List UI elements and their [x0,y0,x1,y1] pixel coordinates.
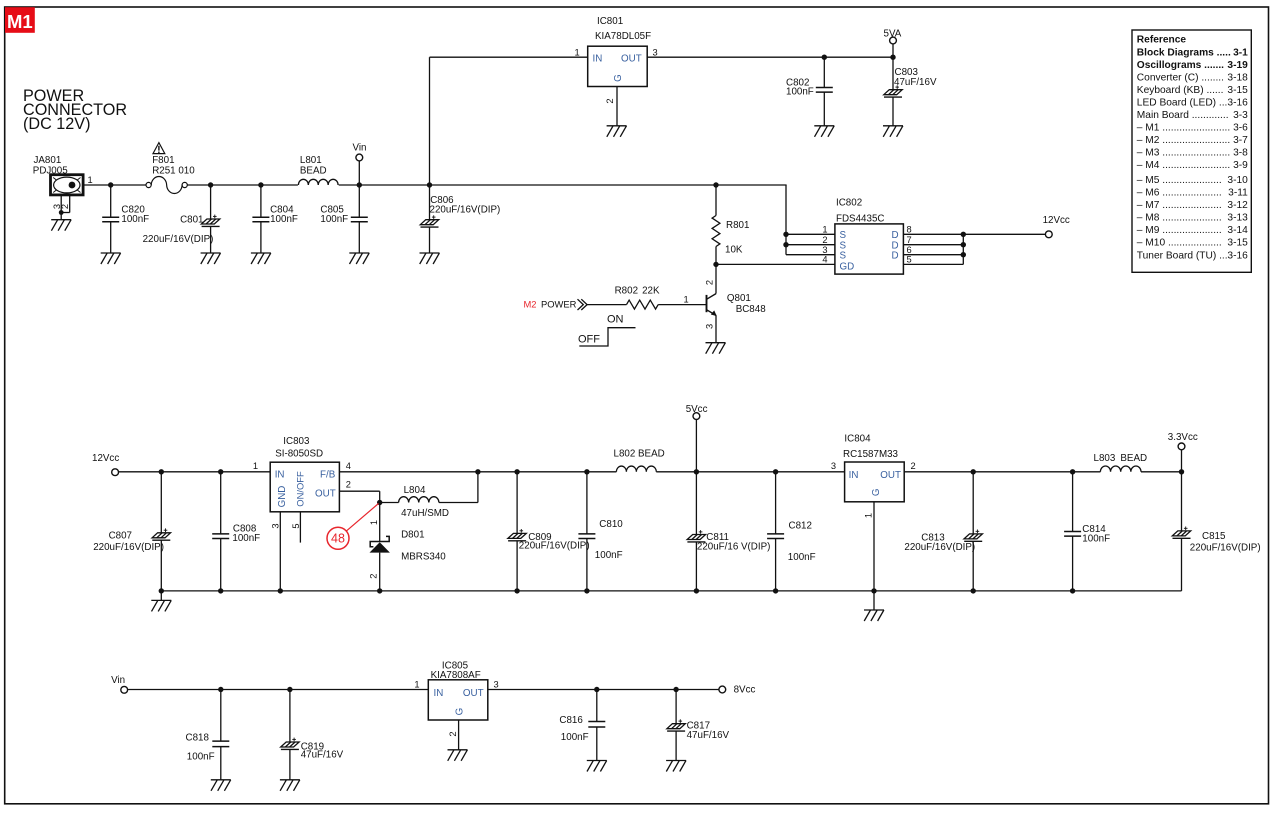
svg-text:48: 48 [331,532,345,546]
ground (IC804) [864,610,884,621]
wire to 12Vcc [963,233,1045,235]
IC804 pin1 wire [873,502,875,591]
svg-text:3-15: 3-15 [1227,238,1248,249]
svg-text:FDS4435C: FDS4435C [836,214,884,225]
IC802 left pin 3 wire [786,254,835,256]
svg-text:IC801: IC801 [597,16,623,27]
capacitor C820 [110,185,112,217]
svg-text:– M3 ........................: – M3 ........................ [1137,148,1230,159]
svg-text:– M5 .....................: – M5 ..................... [1137,175,1222,186]
JA801 pins 2,3 [60,195,62,220]
callout 48 [327,527,349,549]
svg-text:3-15: 3-15 [1227,85,1248,96]
svg-text:BEAD: BEAD [300,166,327,177]
svg-text:– M7 .....................: – M7 ..................... [1137,200,1222,211]
svg-text:JA801: JA801 [34,155,62,166]
svg-text:IN: IN [434,688,444,699]
svg-text:3: 3 [653,48,658,58]
svg-text:220uF/16V(DIP): 220uF/16V(DIP) [904,542,975,553]
svg-text:– M1 ........................: – M1 ........................ [1137,123,1230,134]
capacitor C816 [596,690,598,722]
svg-text:L803: L803 [1094,453,1116,464]
svg-text:(DC 12V): (DC 12V) [23,115,90,133]
svg-text:SI-8050SD: SI-8050SD [275,448,323,459]
svg-text:3.3Vcc: 3.3Vcc [1168,432,1198,443]
svg-text:7: 7 [907,235,912,245]
svg-text:F/B: F/B [320,469,336,480]
svg-text:ON: ON [607,314,624,326]
svg-text:6: 6 [907,245,912,255]
svg-text:Vin: Vin [353,143,367,154]
svg-text:220uF/16V(DIP): 220uF/16V(DIP) [143,234,214,245]
svg-text:4: 4 [346,461,351,471]
svg-text:3-10: 3-10 [1227,175,1248,186]
svg-text:D801: D801 [401,530,424,541]
capacitor C802 [823,57,825,87]
svg-text:5: 5 [291,523,301,528]
svg-text:47uF/16V: 47uF/16V [687,730,730,741]
svg-text:3-3: 3-3 [1233,110,1248,121]
ground (C801) [201,253,221,264]
svg-text:3: 3 [271,523,281,528]
svg-text:BEAD: BEAD [638,448,665,459]
svg-text:2: 2 [605,98,615,103]
IC805 pin2 wire [458,720,460,750]
svg-text:3-7: 3-7 [1233,135,1248,146]
svg-text:2: 2 [911,461,916,471]
capacitor C805 [358,185,360,217]
svg-text:L802: L802 [614,448,636,459]
svg-text:10K: 10K [725,245,743,256]
svg-text:– M10 ...................: – M10 ................... [1137,238,1222,249]
svg-text:100nF: 100nF [121,214,149,225]
main 12V rail wire [83,184,149,186]
svg-text:3-14: 3-14 [1227,225,1248,236]
svg-text:– M4 ........................: – M4 ........................ [1137,160,1230,171]
capacitor C817 (electrolytic) [675,690,677,724]
node 8Vcc [719,686,726,693]
IC802 right pin 6 wire [903,254,963,256]
capacitor C818 [220,690,222,742]
wire rail down to IC802 S pins [785,185,787,255]
IC804 out rail [904,471,1100,473]
svg-text:2: 2 [346,480,351,490]
node 12Vcc (top) [1045,231,1052,238]
ground (C802) [814,126,834,137]
svg-text:R801: R801 [726,220,749,231]
svg-text:OFF: OFF [578,334,600,346]
IC803 pin2 OUT wire [339,490,379,492]
svg-text:47uF/16V: 47uF/16V [894,77,937,88]
svg-text:Vin: Vin [111,675,125,686]
svg-text:22K: 22K [642,286,660,297]
capacitor C811 (electrolytic) [695,472,697,535]
svg-text:S: S [840,251,847,262]
resistor R801 [713,182,718,187]
IC802 GD pin4 wire [716,263,835,265]
capacitor C803 (electrolytic) [892,57,894,89]
svg-text:IC803: IC803 [283,436,310,447]
bottom rail wire [128,689,429,691]
svg-text:3-19: 3-19 [1227,60,1248,71]
svg-text:2: 2 [705,280,715,285]
ground (C803) [883,126,903,137]
svg-text:2: 2 [448,731,458,736]
svg-text:3-13: 3-13 [1227,213,1248,224]
svg-text:100nF: 100nF [1082,534,1110,545]
capacitor C810 [586,472,588,534]
svg-text:3: 3 [494,680,499,690]
wire rail up to IC801 [429,57,431,185]
svg-text:G: G [871,488,882,496]
capacitor C813 (electrolytic) [972,472,974,534]
svg-text:R251 010: R251 010 [152,166,195,177]
IC803 pin5 wire [299,512,301,543]
svg-text:IN: IN [275,469,285,480]
capacitor C806 (electrolytic) [429,185,431,220]
svg-text:Reference: Reference [1137,35,1187,46]
svg-text:3: 3 [705,324,715,329]
ground (C818) [211,780,231,791]
capacitor C819 (electrolytic) [289,690,291,743]
svg-text:R802: R802 [615,286,638,297]
svg-text:G: G [613,74,624,82]
capacitor C807 (electrolytic) [160,472,162,533]
inductor L804 [377,500,382,505]
svg-text:1: 1 [88,175,93,185]
svg-text:C812: C812 [789,521,812,532]
svg-text:IN: IN [849,470,859,481]
svg-text:100nF: 100nF [320,214,348,225]
inductor L803 BEAD [1100,466,1141,472]
svg-text:Main Board .............: Main Board ............. [1137,110,1229,121]
svg-text:KIA78DL05F: KIA78DL05F [595,31,651,42]
svg-text:GND: GND [277,486,288,508]
svg-text:C801: C801 [180,215,203,226]
ground (C817) [666,761,686,772]
svg-text:– M8 .....................: – M8 ..................... [1137,213,1222,224]
svg-text:Oscillograms .......: Oscillograms ....... [1137,60,1224,71]
capacitor C808 [220,472,222,534]
svg-text:G: G [454,708,465,716]
capacitor C815 (electrolytic) [1181,472,1183,531]
svg-text:3-6: 3-6 [1233,123,1248,134]
svg-text:3-1: 3-1 [1233,47,1248,58]
IC803 pin3 wire [279,512,281,591]
capacitor C812 [775,472,777,534]
svg-text:100nF: 100nF [786,87,814,98]
IC802 left bus dots [783,232,788,237]
node R801/Q801/GD junction [713,262,718,267]
ground (JA801) [51,220,71,231]
svg-text:5: 5 [907,255,912,265]
svg-text:100nF: 100nF [561,732,589,743]
warning triangle (F801) [153,143,165,154]
page label M1 [5,7,35,33]
svg-text:Block Diagrams .....: Block Diagrams ..... [1137,47,1231,58]
ground (IC801) [607,126,627,137]
svg-text:220uF/16V(DIP): 220uF/16V(DIP) [519,541,590,552]
IC802 left pin 2 wire [786,244,835,246]
svg-text:IC804: IC804 [844,434,871,445]
wire IC801 out rail [647,56,893,58]
IC802 right pin 8 wire [903,233,963,235]
svg-text:GD: GD [840,261,855,272]
transistor Q801 BC848 [715,264,717,293]
svg-text:Converter (C) ........: Converter (C) ........ [1137,72,1224,83]
capacitor C801 (electrolytic) [210,185,212,219]
svg-text:3-16: 3-16 [1227,250,1248,261]
inductor L802 BEAD [616,466,656,472]
svg-text:220uF/16V(DIP): 220uF/16V(DIP) [93,542,164,553]
IC802 left pin 1 wire [786,233,835,235]
ground (IC805) [448,750,468,761]
svg-text:C818: C818 [186,733,210,744]
svg-text:RC1587M33: RC1587M33 [843,449,899,460]
svg-text:8: 8 [907,225,912,235]
IC802 right bus [962,234,964,264]
ground (mid rail) [160,591,162,601]
svg-text:F801: F801 [152,155,174,166]
svg-text:C815: C815 [1202,531,1226,542]
IC801 pin2 wire [616,87,618,126]
svg-text:3: 3 [831,461,836,471]
svg-text:– M6 .....................: – M6 ..................... [1137,188,1222,199]
svg-text:Q801: Q801 [727,293,751,304]
svg-text:47uF/16V: 47uF/16V [301,750,344,761]
svg-text:M2: M2 [524,298,537,309]
svg-text:3-16: 3-16 [1227,97,1248,108]
svg-text:S: S [840,230,847,241]
svg-text:IC802: IC802 [836,198,862,209]
wire 12Vcc rail to IC803 [119,471,271,473]
svg-text:C810: C810 [599,519,623,530]
capacitor C814 [1072,472,1074,532]
svg-text:100nF: 100nF [788,552,816,563]
IC802 right pin 7 wire [903,244,963,246]
svg-text:1: 1 [684,294,689,304]
svg-text:Keyboard (KB) ......: Keyboard (KB) ...... [1137,85,1224,96]
svg-text:100nF: 100nF [270,214,298,225]
svg-text:2: 2 [369,574,379,579]
diode D801 MBRS340 (schottky) [379,503,381,542]
svg-text:L804: L804 [404,485,426,496]
svg-text:2: 2 [60,204,70,209]
svg-text:3-18: 3-18 [1227,72,1248,83]
svg-text:100nF: 100nF [232,533,260,544]
svg-text:OUT: OUT [621,54,642,65]
svg-text:220uF/16V(DIP): 220uF/16V(DIP) [1190,542,1261,553]
svg-text:3-8: 3-8 [1233,148,1248,159]
svg-text:2: 2 [822,235,827,245]
ground (C819) [280,780,300,791]
svg-text:3-9: 3-9 [1233,160,1248,171]
svg-text:12Vcc: 12Vcc [1043,215,1070,226]
svg-text:D: D [892,230,899,241]
capacitor C809 (electrolytic) [516,472,518,534]
resistor R802 22K [587,304,627,306]
svg-text:C816: C816 [559,715,583,726]
ground (Q801) [706,343,726,354]
svg-text:1: 1 [253,461,258,471]
svg-text:1: 1 [864,513,874,518]
IC803 pin4 F/B rail [339,471,616,473]
reference index table [1132,30,1251,272]
svg-text:3-11: 3-11 [1228,188,1248,199]
svg-text:– M9 .....................: – M9 ..................... [1137,225,1222,236]
IC805 out rail [488,689,719,691]
svg-text:Tuner Board (TU) ...: Tuner Board (TU) ... [1137,250,1228,261]
svg-text:L801: L801 [300,155,322,166]
svg-text:1: 1 [822,225,827,235]
svg-text:D: D [892,251,899,262]
ground (C804) [251,253,271,264]
ground (C816) [587,761,607,772]
svg-text:– M2 ........................: – M2 ........................ [1137,135,1230,146]
svg-text:47uH/SMD: 47uH/SMD [401,508,449,519]
svg-text:BEAD: BEAD [1120,453,1147,464]
svg-text:3: 3 [822,245,827,255]
svg-text:12Vcc: 12Vcc [92,453,119,464]
chevron into POWER wire [578,299,588,310]
svg-text:OUT: OUT [463,688,484,699]
ground (C805) [349,253,369,264]
capacitor C804 [260,185,262,217]
svg-text:8Vcc: 8Vcc [734,685,756,696]
svg-text:1: 1 [414,680,419,690]
svg-text:ON/OFF: ON/OFF [295,471,306,507]
svg-text:M1: M1 [7,11,33,32]
svg-text:OUT: OUT [880,470,901,481]
svg-text:220uF/16 V(DIP): 220uF/16 V(DIP) [697,541,771,552]
svg-text:1: 1 [575,48,580,58]
svg-text:IN: IN [593,54,603,65]
svg-text:100nF: 100nF [187,751,215,762]
svg-text:3-12: 3-12 [1227,200,1248,211]
svg-text:LED Board (LED) ...: LED Board (LED) ... [1137,97,1228,108]
ground (C806) [420,253,440,264]
svg-text:POWER: POWER [541,298,577,309]
svg-text:MBRS340: MBRS340 [401,552,446,563]
svg-text:100nF: 100nF [595,550,623,561]
mid bottom ground rail [161,590,1181,592]
svg-text:C807: C807 [109,531,132,542]
IC802 right pin 5 wire [903,263,963,265]
ground (C820) [101,253,121,264]
svg-text:220uF/16V(DIP): 220uF/16V(DIP) [430,204,501,215]
svg-text:4: 4 [822,255,827,265]
svg-text:OUT: OUT [315,488,336,499]
svg-text:BC848: BC848 [736,304,767,315]
svg-text:1: 1 [369,520,379,525]
